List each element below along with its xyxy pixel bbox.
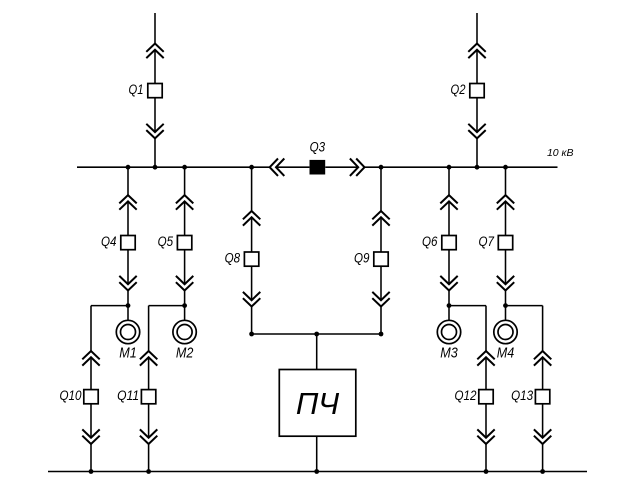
wire: incomer riser Q1 (154, 13, 156, 167)
wire: bypass branch to Q13 (506, 306, 543, 472)
svg-text:10 кВ: 10 кВ (547, 147, 574, 159)
svg-text:М2: М2 (176, 346, 194, 362)
wire: feeder Q9 (380, 167, 382, 334)
svg-text:Q11: Q11 (117, 387, 139, 403)
wire: feeder Q5 (184, 167, 186, 320)
plug contact below Q8 (243, 292, 260, 307)
node: Q10 to bottom bus (89, 469, 94, 474)
svg-text:Q8: Q8 (225, 249, 241, 265)
node: bus tap Q7 (503, 165, 508, 170)
plug contact below Q4 (119, 276, 136, 291)
svg-text:М1: М1 (119, 346, 137, 362)
svg-text:М4: М4 (497, 346, 515, 362)
switch Q2 (470, 84, 484, 98)
plug contact below Q13 (534, 429, 551, 444)
plug contact above Q1 (146, 44, 163, 59)
switch Q5 (177, 236, 191, 250)
plug contact above Q7 (497, 195, 514, 210)
plug contact above Q9 (372, 211, 389, 226)
node: Q12 to bottom bus (484, 469, 489, 474)
node: branch junction under Q7 (503, 303, 508, 308)
svg-text:Q5: Q5 (158, 233, 174, 249)
wire: feeder Q8 (251, 167, 253, 334)
svg-text:Q1: Q1 (129, 81, 144, 97)
switch Q3 (closed, filled) (310, 160, 326, 175)
node: bus tap Q4 (126, 165, 131, 170)
plug contact left of Q3 (270, 159, 285, 176)
svg-text:Q3: Q3 (310, 138, 326, 154)
switch Q8 (244, 252, 258, 266)
plug contact below Q12 (477, 429, 494, 444)
wire: converter to bottom bus (316, 436, 318, 471)
plug contact above Q2 (468, 44, 485, 59)
motor 3 (М3) (437, 320, 460, 343)
plug contact below Q7 (497, 276, 514, 291)
plug contact below Q1 (146, 124, 163, 139)
switch Q9 (374, 252, 388, 266)
node: Q9 to converter link (379, 332, 384, 337)
plug contact above Q4 (119, 195, 136, 210)
motor 1 (М1) (116, 320, 139, 343)
node: bus tap Q8 (249, 165, 254, 170)
motor 2 (М2) (173, 320, 196, 343)
switch Q11 (141, 390, 155, 404)
switch Q6 (442, 236, 456, 250)
plug contact above Q12 (477, 351, 494, 366)
wire: converter input link (252, 333, 381, 335)
node: Q11 to bottom bus (146, 469, 151, 474)
node: Q8 to converter link (249, 332, 254, 337)
node: Q1 to bus (153, 165, 158, 170)
svg-text:Q10: Q10 (60, 387, 82, 403)
node: converter to bottom bus (314, 469, 319, 474)
plug contact above Q13 (534, 351, 551, 366)
wire: bypass branch to Q11 (149, 306, 185, 472)
plug contact below Q5 (176, 276, 193, 291)
wire: feeder Q6 (448, 167, 450, 320)
plug contact below Q2 (468, 124, 485, 139)
svg-text:Q6: Q6 (422, 233, 438, 249)
svg-text:Q12: Q12 (455, 387, 477, 403)
plug contact above Q5 (176, 195, 193, 210)
node: converter tap (314, 332, 319, 337)
switch Q4 (121, 236, 135, 250)
plug contact below Q10 (82, 429, 99, 444)
wire: bypass branch to Q12 (449, 306, 486, 472)
switch Q10 (84, 390, 98, 404)
plug contact below Q11 (140, 429, 157, 444)
svg-text:Q7: Q7 (479, 233, 495, 249)
plug contact above Q8 (243, 211, 260, 226)
wire: bottom bus bar (48, 471, 587, 473)
plug contact above Q6 (440, 195, 457, 210)
node: Q13 to bottom bus (540, 469, 545, 474)
svg-text:ПЧ: ПЧ (296, 386, 339, 421)
plug contact above Q11 (140, 351, 157, 366)
node: Q2 to bus (475, 165, 480, 170)
plug contact right of Q3 (350, 159, 365, 176)
node: branch junction under Q6 (447, 303, 452, 308)
switch Q1 (148, 84, 162, 98)
plug contact above Q10 (82, 351, 99, 366)
wire: bypass branch to Q10 (91, 306, 128, 472)
node: bus tap Q5 (182, 165, 187, 170)
plug contact below Q9 (372, 292, 389, 307)
frequency converter U1 (ПЧ) (279, 370, 356, 437)
wire: incomer riser Q2 (476, 13, 478, 167)
switch Q12 (479, 390, 493, 404)
svg-text:Q2: Q2 (451, 81, 466, 97)
plug contact below Q6 (440, 276, 457, 291)
node: bus tap Q6 (447, 165, 452, 170)
switch Q7 (498, 236, 512, 250)
node: branch junction under Q5 (182, 303, 187, 308)
wire: feeder Q7 (505, 167, 507, 320)
svg-text:М3: М3 (440, 346, 458, 362)
wire: 10 kV bus bar (77, 166, 558, 168)
svg-text:Q13: Q13 (511, 387, 533, 403)
svg-text:Q9: Q9 (354, 249, 370, 265)
switch Q13 (535, 390, 549, 404)
wire: link to converter (316, 334, 318, 370)
svg-text:Q4: Q4 (101, 233, 117, 249)
node: bus tap Q9 (379, 165, 384, 170)
motor 4 (М4) (494, 320, 517, 343)
node: branch junction under Q4 (126, 303, 131, 308)
wire: feeder Q4 (127, 167, 129, 320)
